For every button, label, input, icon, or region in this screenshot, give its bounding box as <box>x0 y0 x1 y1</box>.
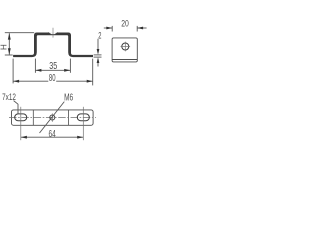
dimension H <box>5 33 34 55</box>
horizontal centerline <box>9 116 96 118</box>
svg-text:H: H <box>0 44 9 50</box>
svg-text:35: 35 <box>49 61 57 72</box>
left slot centerline <box>20 107 22 140</box>
left slot 7x12 <box>15 114 27 121</box>
svg-text:2: 2 <box>98 31 101 42</box>
hole centerline <box>52 28 54 38</box>
side view plate outline <box>112 38 137 62</box>
hole crosshairs <box>124 42 126 52</box>
hat channel sheet section <box>13 33 93 58</box>
right slot centerline <box>82 107 84 140</box>
7x12 leader <box>14 101 18 114</box>
bend line left <box>32 110 34 125</box>
dimension 35 <box>35 59 70 73</box>
bend line right <box>68 110 70 125</box>
svg-text:80: 80 <box>49 73 56 84</box>
hole circle <box>122 43 129 50</box>
countersink cutout in hat top <box>48 32 58 34</box>
dimension 64 <box>21 136 83 138</box>
dimension 2 (sheet thickness) <box>94 39 102 67</box>
right slot 7x12 <box>77 114 89 121</box>
svg-text:M6: M6 <box>64 93 73 104</box>
bottom view plate outline <box>12 110 94 125</box>
M6 leader <box>40 102 65 133</box>
dimension 80 <box>13 59 93 86</box>
svg-text:20: 20 <box>121 19 129 30</box>
svg-text:64: 64 <box>49 129 57 140</box>
dimension 20 <box>104 26 147 32</box>
M6 hole centerline <box>51 113 53 121</box>
M6 hole <box>50 115 55 120</box>
flange line in side view <box>112 59 137 61</box>
